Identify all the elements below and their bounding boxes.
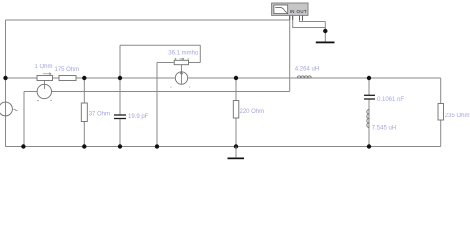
wire sense box left lead: [157, 62, 174, 64]
wire controlled source output line to output node: [52, 91, 290, 93]
node rail: 37 Ohm: [82, 144, 86, 148]
stub 1 Ohm box to controlled source: [44, 81, 46, 90]
wire bottom ground rail: [6, 146, 441, 148]
svg-text:0.1061 nF: 0.1061 nF: [377, 97, 404, 103]
wire series LC bottom: [368, 128, 370, 147]
wire 220 Ohm branch upper: [235, 78, 237, 101]
controlled source circle (below 1 Ohm): [37, 84, 51, 98]
wire long vertical probe to output node: [289, 15, 291, 91]
node 19.9pF tap: [118, 76, 122, 80]
resistor 220 Ohm: [233, 101, 239, 119]
wire 19.9pF branch upper: [119, 78, 121, 115]
wire sense loop left drop to ground rail: [156, 63, 158, 147]
capacitor 19.9 pF plates: [114, 115, 126, 119]
analysis probe block IN OUT: [272, 3, 308, 15]
AC source V1: [0, 102, 12, 116]
VCCS arrow inside circle: [180, 65, 183, 84]
wire 37 Ohm branch lower: [83, 122, 85, 147]
node input at source top: [3, 76, 7, 80]
inductor 7.545 uH vertical coil: [367, 110, 369, 128]
node 220 Ohm tap: [234, 76, 238, 80]
svg-text:IN OUT: IN OUT: [290, 9, 307, 14]
wire sense loop top: [120, 45, 200, 78]
resistor 175 Ohm: [59, 76, 76, 81]
wire top bus from input node to probe IN pin: [6, 19, 290, 21]
node probe ground: [323, 29, 327, 33]
node rail: 220 Ohm: [234, 144, 238, 148]
plus minus marks above sense box: [175, 58, 190, 60]
node rail: LC branch: [367, 144, 371, 148]
node rail: sense drop: [155, 144, 159, 148]
wire main line inductor to load corner: [311, 77, 440, 79]
probe pin stubs: [290, 15, 303, 20]
svg-text:1 Ohm: 1 Ohm: [35, 64, 53, 70]
wire probe ground stub: [324, 22, 326, 42]
arrow marks above 1 Ohm sense resistor: [43, 73, 51, 75]
svg-text:220 Ohm: 220 Ohm: [240, 109, 265, 115]
wire left vertical rail: [5, 20, 7, 147]
AC source tilde mark: [14, 109, 18, 111]
inductor 4.264 uH horizontal coil: [297, 76, 311, 78]
resistor 235 Ohm (load): [438, 104, 444, 121]
wire series LC branch top: [368, 78, 370, 95]
svg-text:7.545 uH: 7.545 uH: [372, 126, 396, 132]
VCCS circle 36.1 mmho: [175, 72, 187, 84]
wire between 1 Ohm and 175 Ohm: [53, 77, 60, 79]
sense box of VCCS 36.1 mmho: [174, 60, 188, 64]
resistor 1 Ohm (current sense): [37, 76, 53, 81]
svg-text:36.1 mmho: 36.1 mmho: [168, 50, 199, 56]
svg-text:235 Ohm: 235 Ohm: [445, 113, 470, 119]
wire 220 Ohm branch lower: [235, 118, 237, 147]
wire probe pin4 stub: [302, 15, 304, 21]
polarity specks under controlled source: [37, 100, 52, 102]
node LC branch tap: [367, 76, 371, 80]
wire load resistor to ground rail: [440, 120, 442, 147]
wire main line VCCS circle to inductor: [188, 77, 298, 79]
capacitor 0.1061 nF plates: [364, 95, 375, 99]
pin number specks under VCCS: [171, 86, 191, 88]
wire 37 Ohm branch upper: [83, 78, 85, 103]
node 37 Ohm tap: [82, 76, 86, 80]
svg-text:37 Ohm: 37 Ohm: [89, 111, 110, 117]
junction node dots: [3, 29, 371, 149]
node rail: 19.9pF: [118, 144, 122, 148]
svg-text:175 Ohm: 175 Ohm: [55, 67, 80, 73]
wire main line 175 Ohm to VCCS circle: [76, 77, 175, 79]
wire controlled source return left: [24, 92, 37, 147]
wire main line segment source node to R 1 Ohm: [6, 77, 38, 79]
svg-text:4.264 uH: 4.264 uH: [295, 67, 319, 73]
wire sense box right lead: [189, 45, 201, 62]
svg-text:19.9 pF: 19.9 pF: [128, 114, 149, 120]
wire right vertical to load resistor: [440, 78, 442, 104]
response curve in probe display: [275, 7, 287, 12]
ground symbol at 220 Ohm rail: [228, 147, 245, 160]
node rail: controlled source return: [21, 144, 25, 148]
resistor 37 Ohm: [81, 103, 87, 122]
wire probe OUT lower L: [293, 15, 326, 27]
ground symbol at probe: [316, 42, 335, 44]
wire probe OUT upper L: [300, 15, 326, 21]
wire 19.9pF branch lower: [119, 119, 121, 147]
wire series LC between C and L: [368, 99, 370, 110]
